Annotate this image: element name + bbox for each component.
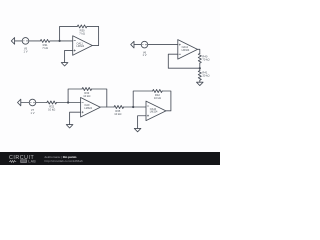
svg-text:1 V: 1 V [30, 111, 34, 115]
wire [15, 40, 23, 42]
logo chip box [20, 160, 27, 163]
ground G3 (left of V6) [131, 41, 134, 48]
op-amp OA9 [81, 98, 101, 118]
svg-text:10 kΩ: 10 kΩ [83, 94, 90, 98]
wire (feedback down to output) [87, 26, 99, 45]
node C junction [67, 101, 69, 103]
resistor R42 [153, 90, 163, 93]
resistor R35 [114, 106, 124, 109]
voltage source V6 [141, 41, 148, 48]
wire (+ input to ground) [138, 116, 146, 129]
label OA9 [84, 104, 92, 110]
op-amp OA11 [73, 36, 93, 56]
wire (feedback down to output) [162, 91, 171, 111]
svg-text:1 V: 1 V [142, 53, 146, 57]
logo resistor glyph [9, 160, 16, 162]
svg-text:10 kΩ: 10 kΩ [154, 96, 161, 100]
label OA12 [182, 46, 190, 52]
wire (+ input to ground) [70, 112, 81, 124]
wire [21, 102, 29, 104]
svg-text:LM324: LM324 [77, 45, 85, 48]
voltage source V7 [29, 99, 36, 106]
wire (+ input to ground) [65, 50, 73, 62]
wire (feedback up) [133, 91, 152, 107]
wire (output down) [198, 49, 200, 53]
wire [36, 102, 47, 104]
svg-text:http://circuitlab.com/c2d66a6: http://circuitlab.com/c2d66a6 [45, 159, 84, 163]
wire [148, 44, 178, 46]
ground G1 (left of V5) [11, 38, 14, 45]
node B junction [199, 67, 201, 69]
label R40 value [202, 55, 209, 62]
resistor R32 [47, 101, 57, 104]
wire (feedback up) [60, 26, 78, 41]
svg-text:LM324: LM324 [150, 111, 158, 114]
svg-text:70 kΩ: 70 kΩ [202, 57, 209, 61]
label OA11 [77, 42, 85, 48]
svg-text:1 V: 1 V [23, 49, 27, 53]
wire (feedback down to output) [92, 89, 107, 107]
ground G2 (below OA11) [61, 63, 68, 66]
wire [199, 80, 201, 82]
node A junction [59, 40, 61, 42]
svg-text:LM324: LM324 [182, 49, 190, 52]
svg-text:7 kΩ: 7 kΩ [79, 31, 85, 35]
wire [124, 106, 146, 108]
wire (feedback to inverting input) [168, 54, 200, 68]
resistor R41 [198, 71, 201, 81]
ground G6 (below OA9) [66, 125, 73, 128]
wire [134, 44, 141, 46]
label OA10 [150, 108, 158, 114]
footer bar [0, 152, 220, 165]
svg-text:7 kΩ: 7 kΩ [42, 46, 48, 50]
svg-text:LAB: LAB [28, 160, 36, 164]
svg-text:30 kΩ: 30 kΩ [202, 74, 209, 78]
resistor R33 [82, 88, 92, 91]
wire [50, 40, 73, 42]
wire [57, 102, 81, 104]
wire (output row) [100, 106, 114, 108]
svg-text:10 kΩ: 10 kΩ [48, 108, 55, 112]
resistor R31 [40, 39, 50, 42]
label R41 value [202, 71, 209, 78]
wire [29, 40, 41, 42]
node D junction [132, 106, 134, 108]
resistor R30 [77, 25, 87, 28]
ground G5 (left of V7) [18, 99, 21, 106]
svg-text:LM324: LM324 [84, 107, 92, 110]
op-amp OA10 [146, 101, 166, 121]
ground G7 (below OA10) [134, 128, 141, 131]
svg-text:10 kΩ: 10 kΩ [114, 112, 121, 116]
wire (feedback up) [68, 89, 82, 103]
op-amp OA12 [178, 40, 198, 60]
resistor R40 [198, 54, 201, 64]
wire [199, 63, 201, 71]
voltage source V5 [22, 38, 29, 45]
ground G4 (below R41) [197, 82, 204, 85]
